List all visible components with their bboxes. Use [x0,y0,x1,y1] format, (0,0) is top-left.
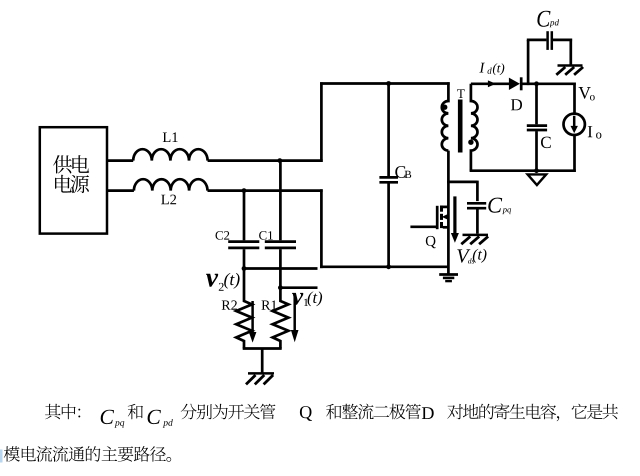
label Cpq [488,198,511,215]
arrow: Id direction [488,80,496,87]
capacitor C [527,84,547,171]
label Id(t) [479,63,504,75]
wire: output right side [573,83,576,115]
node v2 [242,266,247,271]
wire: v1 stub [280,286,317,289]
label R2 [222,301,231,310]
wire: primary bottom / MOSFET drain rail [447,151,450,274]
label Io [588,126,602,138]
supply box 供电电源 [40,127,107,233]
label Vds(t) [457,249,486,264]
resistor R2 [236,269,252,349]
label L2 [161,195,169,205]
label Vo [579,87,595,100]
dot: secondary polarity [468,140,473,145]
arrow: v2 reference [249,301,257,343]
wire: box to L2 [107,189,134,192]
label C [541,137,551,149]
wire: ground stem [261,349,264,373]
transformer primary winding [442,82,449,150]
label C1 [259,231,266,240]
wire: v2 stub [244,267,318,270]
wire: output bottom [470,134,576,172]
wire: top rail [320,82,450,85]
wire: box to L1 [107,159,133,162]
node: C bottom [534,168,539,173]
wire: diode to output node [521,82,576,85]
wire: L2 to left riser [208,189,323,192]
wire: Cpd to ground [569,39,572,65]
inductor L2 [134,179,208,190]
label CB [395,166,411,178]
capacitor Cpq [467,203,486,233]
arrow: v1 reference [291,297,299,342]
ground (hatched) for Cpq [461,235,488,244]
node: L2/C2 junction [242,188,247,193]
current source Io [564,114,585,135]
label Cpd [537,11,559,28]
wire: Cpq branch [447,181,477,202]
wire: Cpd branch [527,40,547,85]
node v1 [278,285,283,290]
transformer secondary winding [471,84,478,171]
label R1 [262,301,271,310]
node: CB top [386,81,391,86]
resistor R1 [273,288,289,349]
node: CB bottom [386,264,391,269]
wire: bottom rail [320,265,449,268]
ground (hatched) below R1/R2 [246,373,274,384]
capacitor C1 [265,161,296,288]
dot: primary polarity [442,105,447,110]
label v2(t) [206,273,240,291]
MOSFET Q symbol [437,206,448,230]
capacitor Cpd [548,31,573,50]
node: output [534,81,539,86]
wire: riser down to bottom rail [320,189,323,268]
ground: MOSFET source (3-bar) [439,275,458,282]
caption line 1 [45,403,618,427]
capacitor CB [379,84,398,267]
capacitor C2 [228,191,259,269]
inductor L1 [133,149,207,160]
ground (hatched) for Cpd [556,66,583,75]
label C2 [216,231,223,240]
diode D [509,77,521,90]
wire: riser up to top rail [320,82,323,162]
node: L1/C1 junction [277,158,282,163]
label Q [426,236,436,248]
wire: resistor bottoms [243,347,282,350]
label T [457,89,465,98]
wire: secondary top to diode [471,82,510,85]
label D [511,99,522,110]
page edge artifact [0,450,3,463]
arrow Vds [451,196,459,242]
label L1 [163,133,171,143]
wire: L1 to left riser [208,159,323,162]
transformer T core [458,100,463,153]
label v1(t) [292,291,322,306]
ground (open triangle) [528,174,547,185]
MOSFET Q gate wire [410,225,436,228]
caption line 2 [4,446,171,462]
